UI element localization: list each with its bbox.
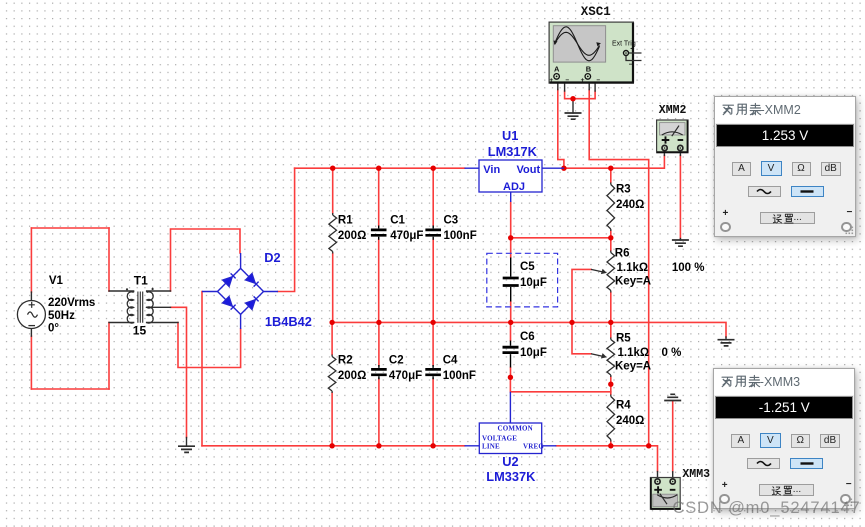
wire bridge positive riser — [278, 168, 295, 291]
wire top-left horizontal — [31, 227, 109, 229]
svg-text:LINE: LINE — [482, 443, 500, 451]
svg-text:+: + — [581, 77, 585, 84]
wire negative rail — [202, 445, 465, 447]
wire R6 leads — [610, 238, 612, 323]
XSC1 label — [581, 5, 611, 19]
svg-text:−: − — [596, 77, 600, 84]
ground (transformer center tap) — [178, 446, 195, 452]
svg-text:VOLTAGE: VOLTAGE — [482, 435, 517, 443]
resistor R1 — [329, 213, 337, 254]
wire Vout rail to XMM2 — [564, 155, 665, 168]
oscilloscope XSC1 icon — [549, 22, 641, 84]
wire C5 leads — [510, 238, 512, 323]
wire R4 leads — [610, 384, 612, 446]
svg-text:B: B — [586, 65, 592, 74]
R2 labels — [338, 355, 366, 383]
wire ground rail — [332, 322, 726, 337]
multimeter XMM3 icon — [650, 478, 680, 510]
svg-text:220Vrms: 220Vrms — [48, 297, 95, 309]
svg-text:0 %: 0 % — [662, 347, 682, 359]
wire bottom-left horizontal — [31, 388, 109, 390]
wire secondary bottom to bridge AC2 — [178, 323, 241, 368]
svg-text:+: + — [630, 46, 634, 53]
wire XMM3 minus to flipped ground — [672, 401, 674, 472]
R4 labels — [616, 400, 644, 428]
wire XMM3 minus stub — [672, 472, 674, 478]
wire T1 primary stubs — [109, 291, 134, 323]
svg-text:C5: C5 — [520, 261, 535, 273]
V1 labels — [48, 275, 95, 335]
svg-text:VREG: VREG — [523, 443, 544, 451]
svg-text:240Ω: 240Ω — [616, 199, 644, 211]
svg-text:Key=A: Key=A — [615, 361, 651, 373]
svg-text:T1: T1 — [134, 274, 148, 288]
svg-text:200Ω: 200Ω — [338, 230, 366, 242]
svg-text:100nF: 100nF — [443, 370, 476, 382]
svg-text:COMMON: COMMON — [498, 425, 533, 433]
R5 labels — [615, 333, 681, 373]
wire XMM2 minus to ground — [679, 155, 681, 238]
svg-text:15: 15 — [133, 324, 147, 338]
wire R3 leads — [610, 168, 612, 238]
wire R1 top lead — [332, 168, 334, 213]
svg-text:R5: R5 — [616, 333, 631, 345]
junction dots — [329, 96, 651, 448]
resistor R4 — [607, 395, 615, 442]
svg-text:C6: C6 — [520, 331, 535, 343]
wire VREG output rail — [556, 446, 657, 472]
wire C3 leads — [432, 168, 434, 322]
resistor R2 — [328, 355, 336, 394]
wire scope A stub — [557, 80, 559, 90]
wire scope A minus stub — [560, 76, 565, 91]
AC source V1 — [17, 301, 45, 329]
U1 labels — [488, 128, 538, 159]
capacitor C6 — [503, 341, 519, 368]
svg-text:470μF: 470μF — [389, 370, 422, 382]
resistor R3 — [607, 183, 615, 232]
wire C4 leads — [432, 322, 434, 445]
op-regulator U1 LM317K — [465, 160, 564, 202]
XMM3 label — [682, 468, 710, 481]
svg-text:XMM2: XMM2 — [659, 104, 687, 117]
op-regulator U2 LM337K — [465, 392, 557, 454]
potentiometer R5 — [591, 338, 615, 378]
svg-text:Key=A: Key=A — [615, 276, 651, 288]
wire R1 bottom lead — [332, 254, 334, 323]
wire scope B minus stub — [591, 76, 595, 91]
ground (main ground rail) — [718, 340, 735, 346]
wire ADJ row — [511, 202, 611, 238]
svg-text:C2: C2 — [389, 355, 404, 367]
svg-text:100nF: 100nF — [444, 230, 477, 242]
C5 selection box — [487, 253, 558, 307]
svg-text:A: A — [554, 65, 560, 74]
capacitor C2 — [371, 365, 387, 379]
svg-text:+: + — [549, 77, 553, 84]
C4 labels — [443, 355, 476, 383]
wire C1 leads — [378, 168, 380, 322]
wire T1 secondary stubs — [147, 291, 178, 323]
wire scope A probe — [558, 90, 564, 169]
svg-text:D2: D2 — [264, 250, 280, 265]
C6 labels — [520, 331, 547, 359]
wire R2 leads — [331, 322, 333, 445]
wire V1 top vertical — [30, 228, 32, 292]
svg-text:C1: C1 — [390, 215, 405, 227]
svg-text:Vout: Vout — [517, 164, 541, 176]
svg-text:1.1kΩ: 1.1kΩ — [617, 262, 649, 274]
wire secondary center tap to ground — [171, 307, 187, 437]
wire V1 stubs — [30, 292, 32, 336]
ground (scope common) — [565, 113, 582, 119]
svg-text:1B4B42: 1B4B42 — [265, 314, 312, 329]
wire scope common to ground — [565, 91, 596, 99]
svg-text:10μF: 10μF — [520, 347, 547, 359]
capacitor C4 — [425, 365, 441, 379]
svg-text:0°: 0° — [48, 323, 59, 335]
capacitor C3 — [425, 226, 441, 240]
XMM2 label — [659, 104, 687, 117]
D2 labels — [264, 250, 312, 329]
wire scope B probe to negative output — [589, 90, 649, 446]
svg-text:C3: C3 — [444, 215, 459, 227]
svg-text:R1: R1 — [338, 215, 353, 227]
wire V1 bottom vertical — [30, 336, 32, 389]
C3 labels — [444, 215, 477, 243]
wire secondary top to bridge AC1 — [171, 229, 241, 291]
wire tap ground stub — [186, 438, 188, 447]
wire common row U2 — [510, 377, 610, 392]
wire bridge negative to lower rail — [201, 292, 203, 446]
svg-text:R4: R4 — [616, 400, 631, 412]
svg-text:U2: U2 — [502, 454, 518, 469]
wire R5 leads — [610, 322, 612, 384]
svg-text:LM337K: LM337K — [486, 469, 536, 484]
wire XMM2 ground stub — [679, 239, 681, 241]
R3 labels — [616, 184, 644, 212]
svg-text:XSC1: XSC1 — [581, 5, 611, 19]
C2 labels — [389, 355, 422, 383]
svg-text:240Ω: 240Ω — [616, 415, 644, 427]
wire scope ground drop — [572, 99, 574, 113]
R1 labels — [338, 215, 366, 243]
wire XMM2 terminal stubs — [664, 151, 680, 156]
wire scope B stub — [588, 80, 590, 90]
wire positive rail — [295, 167, 465, 169]
svg-text:R3: R3 — [616, 184, 631, 196]
C1 labels — [390, 215, 423, 243]
svg-text:XMM3: XMM3 — [682, 468, 710, 481]
C5 labels — [520, 261, 547, 289]
multimeter panel XMM3 — [713, 368, 855, 509]
wire C6 leads — [510, 322, 512, 377]
capacitor C5 — [503, 258, 519, 302]
svg-text:LM317K: LM317K — [488, 144, 538, 159]
R6 labels — [615, 248, 705, 288]
ground flipped (XMM3 minus) — [664, 394, 681, 400]
multimeter panel XMM2 — [714, 96, 856, 237]
svg-text:100 %: 100 % — [672, 262, 705, 274]
svg-text:10μF: 10μF — [520, 277, 547, 289]
wire T1 primary bottom rise — [108, 323, 110, 390]
ground (XMM2 minus) — [672, 240, 689, 246]
svg-text:−: − — [565, 77, 569, 84]
T1 labels — [133, 274, 148, 338]
wire C2 leads — [378, 322, 380, 445]
wire ground rail stub — [725, 337, 727, 340]
svg-text:R2: R2 — [338, 355, 353, 367]
svg-text:R6: R6 — [615, 248, 630, 260]
bridge rectifier D2 — [202, 253, 278, 329]
svg-text:C4: C4 — [443, 355, 458, 367]
svg-text:ADJ: ADJ — [503, 181, 525, 193]
svg-text:470μF: 470μF — [390, 230, 423, 242]
svg-text:−: − — [629, 61, 633, 68]
wire XMM3 plus stub — [657, 472, 659, 478]
svg-text:200Ω: 200Ω — [338, 370, 366, 382]
U2 labels — [486, 454, 536, 484]
multimeter XMM2 icon — [657, 120, 689, 153]
potentiometer R6 — [591, 251, 615, 293]
wire R6 wiper to ground rail — [572, 269, 591, 353]
svg-text:U1: U1 — [502, 128, 518, 143]
svg-text:V1: V1 — [49, 275, 64, 287]
transformer T1 — [126, 288, 154, 323]
CSDN watermark — [673, 499, 865, 518]
svg-text:50Hz: 50Hz — [48, 310, 75, 322]
capacitor C1 — [371, 226, 387, 240]
wire T1 primary top drop — [108, 228, 110, 291]
svg-text:Vin: Vin — [483, 164, 500, 176]
svg-text:1.1kΩ: 1.1kΩ — [618, 347, 650, 359]
